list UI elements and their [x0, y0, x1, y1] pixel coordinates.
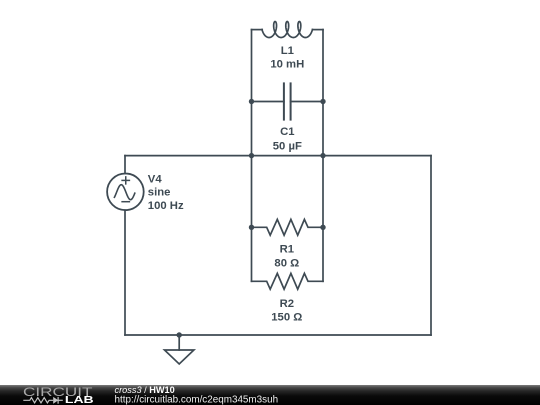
wire: left rail above V4: [124, 156, 126, 174]
svg-text:10 mH: 10 mH: [270, 59, 304, 71]
svg-text:L1: L1: [281, 45, 294, 57]
node: main wire left junction: [249, 153, 254, 158]
wire: right outer rail: [430, 156, 432, 335]
svg-text:V4: V4: [148, 174, 163, 186]
logo resistor-diode icon: [23, 397, 63, 404]
V4 minus sign: [122, 201, 129, 203]
voltage source V4 circle: [107, 174, 144, 211]
resistor R1: [252, 219, 324, 235]
ground stub: [178, 335, 180, 350]
junction dots: [177, 99, 326, 338]
ground triangle: [165, 350, 194, 364]
svg-text:50 µF: 50 µF: [273, 141, 302, 153]
svg-text:cross3 / HW10: cross3 / HW10: [115, 385, 175, 395]
wire: left rail below V4 down to bottom: [124, 210, 126, 335]
wire: right branch rail: [322, 30, 324, 282]
capacitor C1: [252, 83, 324, 119]
node: C1 left junction: [249, 99, 254, 104]
node: R1 right junction: [320, 225, 325, 230]
svg-text:C1: C1: [280, 126, 294, 138]
svg-text:http://circuitlab.com/c2eqm345: http://circuitlab.com/c2eqm345m3suh: [115, 395, 279, 405]
svg-text:150 Ω: 150 Ω: [271, 312, 302, 324]
svg-text:80 Ω: 80 Ω: [274, 257, 299, 269]
node: main wire right junction: [320, 153, 325, 158]
svg-text:sine: sine: [148, 187, 171, 199]
svg-text:LAB: LAB: [65, 395, 94, 405]
labels: [148, 45, 304, 323]
V4 plus sign: [122, 177, 129, 184]
V4 sine waveform: [114, 185, 134, 200]
svg-text:R2: R2: [280, 298, 294, 310]
node: ground junction: [177, 332, 182, 337]
wire: bottom net: [125, 334, 431, 336]
node: R1 left junction: [249, 225, 254, 230]
inductor L1: [252, 22, 324, 38]
wire: main horizontal net from V4 top across to right rail: [125, 155, 431, 157]
svg-text:100 Hz: 100 Hz: [148, 200, 184, 212]
footer bar: [0, 385, 540, 405]
svg-text:R1: R1: [280, 243, 294, 255]
wire: left branch rail: [251, 30, 253, 282]
node: C1 right junction: [320, 99, 325, 104]
resistor R2: [252, 273, 324, 289]
